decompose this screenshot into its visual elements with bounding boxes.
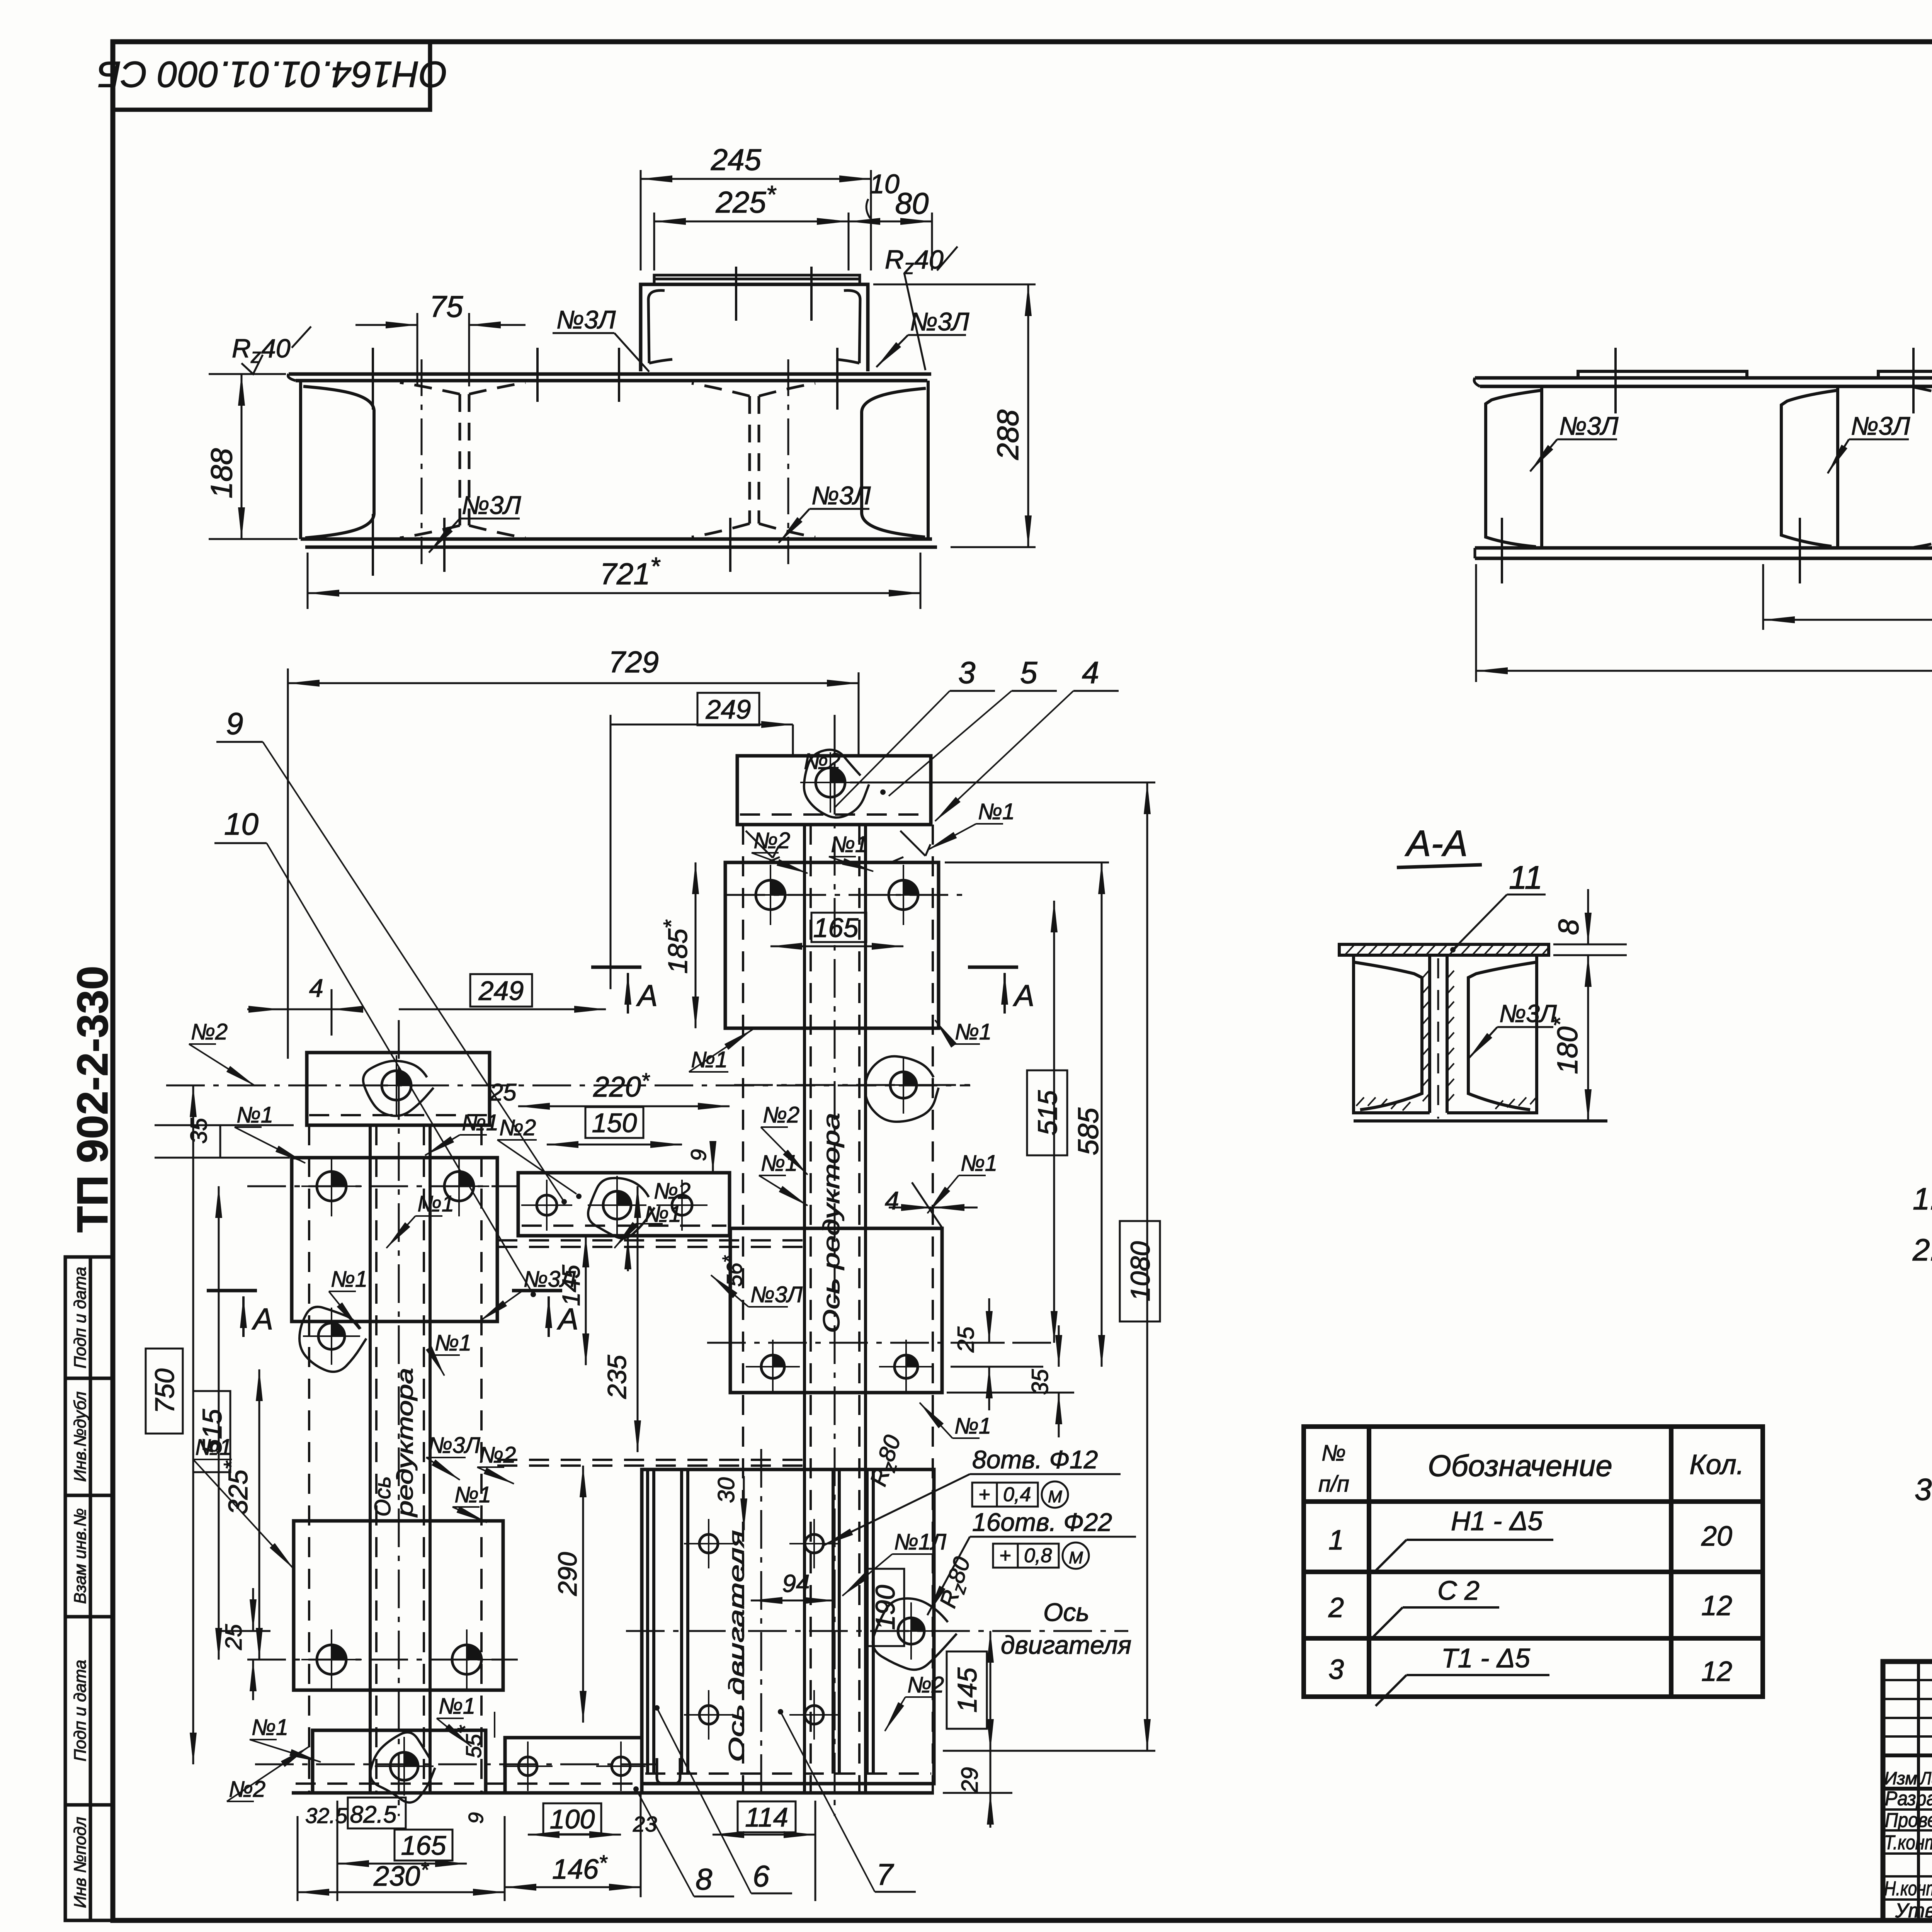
motor vertical axis bbox=[760, 1449, 762, 1801]
svg-text:9: 9 bbox=[686, 1149, 711, 1161]
dim 808* bbox=[1763, 564, 1932, 630]
№3Л callout middle bbox=[1828, 412, 1910, 473]
hidden channel webs in band (dashed) bbox=[400, 383, 815, 538]
svg-text:№: № bbox=[1321, 1440, 1346, 1466]
svg-text:Т.контр.: Т.контр. bbox=[1884, 1832, 1932, 1854]
svg-text:25: 25 bbox=[953, 1327, 979, 1353]
svg-text:8отв. Ф12: 8отв. Ф12 bbox=[972, 1445, 1098, 1474]
svg-text:3: 3 bbox=[958, 655, 976, 690]
svg-text:82.5: 82.5 bbox=[350, 1801, 397, 1828]
dim 288 vertical right bbox=[873, 284, 1036, 547]
plate L2 (left column, 2 holes) bbox=[292, 1158, 497, 1321]
№3Л callout lower right bbox=[779, 481, 871, 543]
svg-text:Подп и дата: Подп и дата bbox=[71, 1660, 90, 1761]
vertical doc code ТП 902-2-330 bbox=[68, 966, 117, 1233]
dim 515 left boxed bbox=[193, 1391, 230, 1472]
svg-text:3. СварныешвыпоГОСТ5264-69: 3. СварныешвыпоГОСТ5264-69 bbox=[1915, 1472, 1932, 1507]
svg-text:Н.контр.: Н.контр. bbox=[1884, 1878, 1932, 1900]
svg-text:100: 100 bbox=[550, 1804, 595, 1834]
motor small holes bbox=[699, 1534, 718, 1553]
svg-text:29: 29 bbox=[957, 1767, 983, 1793]
right column axis bbox=[834, 715, 836, 1816]
svg-text:11: 11 bbox=[1509, 859, 1543, 896]
svg-text:10: 10 bbox=[224, 807, 259, 841]
svg-text:Ось редуктора: Ось редуктора bbox=[818, 1113, 844, 1333]
plate L3 (left column lower) bbox=[294, 1521, 503, 1690]
top plate item 11 (hatched) bbox=[1339, 944, 1549, 955]
svg-text:230*: 230* bbox=[373, 1857, 429, 1892]
svg-text:№1: №1 bbox=[236, 1102, 273, 1128]
svg-text:Rz40: Rz40 bbox=[232, 334, 291, 367]
svg-text:№1: №1 bbox=[955, 1019, 992, 1044]
svg-text:двигателя: двигателя bbox=[1001, 1631, 1131, 1659]
dim 8 bbox=[1553, 889, 1627, 989]
leader 11 bbox=[1450, 859, 1546, 952]
svg-text:585: 585 bbox=[1072, 1107, 1104, 1155]
dim 249 mid bbox=[470, 974, 532, 1007]
svg-text:Кол.: Кол. bbox=[1689, 1449, 1744, 1480]
right column rails bbox=[804, 825, 866, 1793]
svg-text:4: 4 bbox=[309, 974, 323, 1002]
svg-text:145: 145 bbox=[952, 1667, 982, 1713]
svg-text:№1: №1 bbox=[417, 1191, 454, 1216]
svg-text:А: А bbox=[252, 1302, 273, 1336]
svg-text:288: 288 bbox=[991, 410, 1025, 460]
svg-text:165: 165 bbox=[401, 1830, 447, 1861]
svg-text:Инв №подл: Инв №подл bbox=[71, 1817, 90, 1908]
svg-text:35: 35 bbox=[1027, 1369, 1053, 1395]
svg-text:30: 30 bbox=[713, 1477, 739, 1503]
lower crossmember hidden edges bbox=[497, 1459, 804, 1461]
motor center hole with R80 blob bbox=[873, 1599, 957, 1670]
svg-text:4: 4 bbox=[885, 1186, 899, 1215]
svg-text:9: 9 bbox=[226, 706, 243, 741]
svg-text:8: 8 bbox=[696, 1862, 712, 1896]
motor horizontal axis bbox=[626, 1630, 1128, 1632]
svg-text:А: А bbox=[636, 978, 658, 1012]
section A-A cut marks bbox=[591, 966, 641, 969]
svg-text:№2: №2 bbox=[907, 1672, 944, 1697]
svg-text:290: 290 bbox=[553, 1552, 582, 1596]
svg-text:№1: №1 bbox=[331, 1267, 367, 1292]
left channel end profile bbox=[301, 381, 374, 539]
svg-text:№3Л: №3Л bbox=[1559, 412, 1619, 440]
svg-text:№1: №1 bbox=[831, 832, 867, 857]
svg-text:М: М bbox=[1069, 1548, 1083, 1567]
weld diagonals under plate 5 bbox=[746, 831, 930, 862]
svg-text:Ось: Ось bbox=[370, 1476, 395, 1517]
pads on top of flange bbox=[1578, 371, 1932, 378]
svg-text:№2: №2 bbox=[763, 1102, 799, 1128]
VIEW 1 : top-left side elevation bbox=[204, 143, 1036, 609]
svg-text:7: 7 bbox=[876, 1857, 894, 1891]
svg-text:№2: №2 bbox=[499, 1115, 536, 1140]
channel web solid left end bbox=[1486, 386, 1932, 548]
tick verticals across flanges bbox=[373, 348, 837, 576]
motor mount plate bbox=[642, 1469, 934, 1784]
svg-text:№1: №1 bbox=[954, 1413, 991, 1439]
lower beam top flange bbox=[288, 374, 937, 547]
svg-text:Лист: Лист bbox=[1919, 1768, 1932, 1788]
dim 180* bbox=[1547, 955, 1588, 1121]
№3Л callout top right bbox=[876, 307, 969, 367]
svg-text:25: 25 bbox=[221, 1624, 247, 1650]
svg-text:№3Л: №3Л bbox=[428, 1433, 480, 1458]
svg-text:А-А: А-А bbox=[1405, 823, 1468, 864]
weld designation leaders in table bbox=[1372, 1540, 1553, 1706]
svg-text:75: 75 bbox=[430, 289, 463, 323]
left column axis bbox=[398, 1020, 400, 1816]
dim 75 bbox=[355, 289, 526, 386]
svg-text:235: 235 bbox=[602, 1355, 632, 1399]
svg-text:Изм: Изм bbox=[1884, 1768, 1917, 1788]
svg-text:№1: №1 bbox=[978, 799, 1015, 824]
svg-text:№1: №1 bbox=[961, 1151, 997, 1176]
svg-text:16отв. Ф22: 16отв. Ф22 bbox=[972, 1508, 1112, 1536]
svg-text:32.5: 32.5 bbox=[305, 1803, 348, 1828]
svg-text:Rz80: Rz80 bbox=[935, 1554, 979, 1612]
svg-text:94: 94 bbox=[782, 1570, 810, 1597]
bottom flange bbox=[301, 539, 937, 547]
svg-text:729: 729 bbox=[609, 645, 659, 679]
svg-text:№1: №1 bbox=[761, 1151, 798, 1176]
dim 188 vertical bbox=[204, 374, 298, 539]
upper channel box bbox=[641, 275, 868, 371]
dim 1138* bbox=[1476, 564, 1932, 682]
svg-text:№2: №2 bbox=[479, 1442, 516, 1468]
plate L1 (top of left column) bbox=[307, 1053, 490, 1125]
svg-text:146*: 146* bbox=[552, 1850, 608, 1885]
parts table bbox=[1304, 1427, 1763, 1697]
svg-text:№1: №1 bbox=[462, 1110, 498, 1135]
svg-text:35: 35 bbox=[186, 1118, 212, 1144]
svg-text:Ось: Ось bbox=[1043, 1598, 1089, 1626]
svg-text:п/п: п/п bbox=[1318, 1471, 1349, 1497]
svg-text:ОН164.01.01.000 СБ: ОН164.01.01.000 СБ bbox=[97, 54, 448, 95]
№3Л callout lower left bbox=[429, 491, 521, 553]
svg-text:№3Л: №3Л bbox=[910, 307, 969, 336]
svg-text:1.*Размерыдлясправок: 1.*Размерыдлясправок bbox=[1913, 1174, 1932, 1216]
svg-text:Rz40: Rz40 bbox=[885, 245, 944, 279]
hidden channel webs dashed bbox=[1905, 386, 1932, 549]
svg-text:№3Л: №3Л bbox=[811, 481, 871, 510]
dim 750 boxed bbox=[146, 1349, 183, 1434]
svg-text:1080: 1080 bbox=[1125, 1241, 1155, 1301]
corner doc-number box (upside down) bbox=[97, 43, 448, 110]
svg-text:80: 80 bbox=[895, 186, 929, 220]
dim 515 right bbox=[1027, 1070, 1067, 1155]
svg-text:4: 4 bbox=[1082, 655, 1099, 690]
dim 145 right / 29 bbox=[947, 1651, 987, 1729]
svg-text:188: 188 bbox=[204, 448, 238, 498]
dim 185* bbox=[695, 862, 697, 1028]
title block grid bbox=[1883, 1662, 1932, 1920]
dashed centerline between channels bbox=[1437, 958, 1439, 1119]
dim 249 top bbox=[697, 693, 759, 725]
dim 585 bbox=[1101, 862, 1103, 1367]
tick verticals bbox=[1502, 232, 1932, 583]
svg-text:180*: 180* bbox=[1547, 1017, 1583, 1074]
roughness R240 right bbox=[885, 245, 957, 370]
svg-text:1: 1 bbox=[1328, 1525, 1344, 1556]
technical notes bbox=[1912, 1174, 1932, 1507]
svg-text:12: 12 bbox=[1701, 1590, 1732, 1621]
№3Л callout left bbox=[1530, 412, 1619, 471]
svg-text:2: 2 bbox=[1328, 1592, 1344, 1623]
bottom edge line bbox=[1354, 1119, 1607, 1122]
svg-text:Утв.: Утв. bbox=[1895, 1900, 1932, 1922]
svg-text:Подп и дата: Подп и дата bbox=[71, 1267, 90, 1368]
bottom left plate bbox=[313, 1730, 486, 1793]
svg-text:2. Неуказанныепредельныеотклон: 2. Неуказанныепредельныеотклонения bbox=[1912, 1233, 1932, 1267]
svg-text:№2: №2 bbox=[753, 828, 790, 853]
svg-text:№3Л: №3Л bbox=[1851, 412, 1910, 440]
svg-text:3: 3 bbox=[1328, 1654, 1344, 1685]
svg-text:6: 6 bbox=[753, 1859, 770, 1893]
svg-text:№3Л: №3Л bbox=[462, 491, 521, 519]
svg-text:114: 114 bbox=[745, 1802, 788, 1832]
left margin stamp boxes bbox=[65, 1257, 113, 1920]
svg-text:№2: №2 bbox=[804, 749, 840, 774]
№3Л callout top middle bbox=[553, 305, 649, 372]
hatch of top plate bbox=[1345, 944, 1548, 955]
svg-text:Ось двигателя: Ось двигателя bbox=[724, 1530, 748, 1762]
svg-text:9: 9 bbox=[464, 1812, 488, 1824]
№3Л label bbox=[1468, 1000, 1557, 1059]
dim 80 bbox=[849, 186, 932, 270]
dim 729 bbox=[287, 668, 289, 1059]
svg-text:165: 165 bbox=[813, 913, 859, 943]
svg-text:М: М bbox=[1048, 1487, 1062, 1506]
left channel outer bbox=[1354, 955, 1430, 1113]
svg-text:№1: №1 bbox=[691, 1047, 728, 1072]
svg-text:Rz80: Rz80 bbox=[865, 1432, 910, 1490]
bottom flange bbox=[1475, 548, 1932, 558]
svg-text:№2: №2 bbox=[654, 1179, 690, 1204]
top flange double line bbox=[1474, 378, 1932, 558]
box centerline ticks bbox=[736, 267, 811, 321]
right channel end profile bbox=[862, 381, 928, 538]
dim 10 (flange offset) bbox=[866, 169, 900, 218]
plate 5 (top of right column) bbox=[737, 756, 931, 825]
svg-text:220*: 220* bbox=[593, 1068, 650, 1103]
blob hole on right rail between plates bbox=[865, 1056, 939, 1122]
svg-text:редуктора: редуктора bbox=[393, 1368, 418, 1518]
svg-text:+: + bbox=[978, 1483, 990, 1506]
title block texts bbox=[1884, 1677, 1932, 1922]
svg-text:5: 5 bbox=[1020, 655, 1037, 690]
svg-text:0,4: 0,4 bbox=[1003, 1483, 1031, 1506]
svg-text:12: 12 bbox=[1701, 1656, 1732, 1687]
motor mount channel bars bbox=[648, 1469, 873, 1774]
left channel web hatched (thick) bbox=[1428, 955, 1431, 1113]
svg-text:№1: №1 bbox=[454, 1482, 491, 1507]
bottom small plate 2 holes bbox=[505, 1738, 642, 1793]
svg-text:20: 20 bbox=[1701, 1521, 1732, 1552]
svg-text:150: 150 bbox=[592, 1108, 637, 1138]
svg-text:А: А bbox=[1013, 978, 1034, 1012]
svg-text:515: 515 bbox=[1032, 1090, 1063, 1136]
hatch of webs bbox=[1356, 971, 1536, 1111]
svg-text:249: 249 bbox=[706, 694, 751, 724]
svg-text:0,8: 0,8 bbox=[1024, 1544, 1052, 1567]
svg-text:Инв.№дубл: Инв.№дубл bbox=[71, 1391, 90, 1482]
roughness R240 left with check arrow bbox=[232, 327, 311, 374]
svg-text:Н1 - Δ5: Н1 - Δ5 bbox=[1451, 1506, 1543, 1536]
plate (3rd on right column) bbox=[730, 1228, 942, 1393]
dim 245 bbox=[641, 143, 871, 270]
svg-text:56*: 56* bbox=[719, 1255, 747, 1287]
svg-text:190: 190 bbox=[870, 1585, 900, 1630]
svg-text:249: 249 bbox=[478, 976, 524, 1006]
svg-text:№3Л: №3Л bbox=[524, 1267, 576, 1292]
svg-text:№1Л: №1Л bbox=[894, 1529, 946, 1554]
svg-text:Разраб.: Разраб. bbox=[1885, 1787, 1932, 1810]
svg-text:23: 23 bbox=[633, 1812, 657, 1836]
svg-text:А: А bbox=[557, 1302, 578, 1336]
svg-text:Т1 - Δ5: Т1 - Δ5 bbox=[1441, 1643, 1531, 1673]
svg-text:225*: 225* bbox=[715, 180, 776, 219]
svg-text:ТП 902-2-330: ТП 902-2-330 bbox=[68, 966, 117, 1233]
dim 721* bbox=[308, 552, 920, 609]
svg-text:Обозначение: Обозначение bbox=[1428, 1449, 1612, 1483]
svg-text:185*: 185* bbox=[659, 919, 693, 974]
svg-text:№1: №1 bbox=[439, 1694, 475, 1719]
svg-text:№1: №1 bbox=[435, 1330, 471, 1355]
dim 225* bbox=[654, 180, 849, 270]
plan bottom edge bbox=[292, 1791, 934, 1795]
SECTION A-A VIEW bbox=[1339, 823, 1627, 1121]
svg-text:721*: 721* bbox=[600, 552, 660, 591]
svg-text:Взам инв.№: Взам инв.№ bbox=[71, 1508, 90, 1604]
middle plate (3 holes) bbox=[518, 1173, 730, 1236]
plate (2nd on right column, 2 holes) bbox=[725, 862, 939, 1028]
dim 1080 bbox=[1120, 1221, 1160, 1321]
svg-text:Провер.: Провер. bbox=[1885, 1809, 1932, 1832]
left column rails bbox=[370, 1125, 430, 1793]
svg-text:С 2: С 2 bbox=[1437, 1575, 1480, 1605]
VIEW 2 : top-right side elevation bbox=[1474, 160, 1932, 682]
svg-text:№2: №2 bbox=[229, 1777, 265, 1802]
svg-text:№3Л: №3Л bbox=[750, 1282, 803, 1307]
svg-text:8: 8 bbox=[1553, 919, 1585, 935]
bottom П cutout of left bar bbox=[657, 1758, 680, 1784]
svg-text:750: 750 bbox=[150, 1369, 180, 1414]
svg-text:№1: №1 bbox=[252, 1715, 288, 1740]
svg-text:№3Л: №3Л bbox=[556, 305, 616, 334]
svg-text:245: 245 bbox=[711, 143, 762, 177]
two channels back to back (section) bbox=[1354, 955, 1537, 1113]
svg-text:+: + bbox=[999, 1544, 1011, 1567]
svg-text:№2: №2 bbox=[191, 1019, 228, 1044]
svg-text:№1: №1 bbox=[195, 1435, 232, 1460]
right channel outer bbox=[1447, 955, 1537, 1113]
centerline axes through band bbox=[422, 359, 788, 564]
